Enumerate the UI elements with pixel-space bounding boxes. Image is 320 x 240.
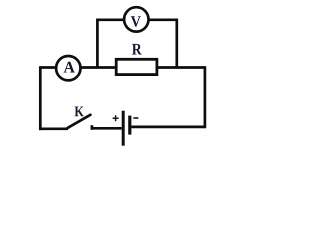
label K [75, 106, 84, 116]
wire: main middle horizontal [40, 66, 205, 69]
label V [131, 16, 141, 26]
battery plus sign [113, 115, 119, 121]
label A [64, 62, 75, 73]
battery minus sign [133, 117, 138, 119]
voltmeter V circle [124, 7, 148, 31]
resistor R body [116, 59, 157, 74]
battery negative plate (short) [128, 116, 131, 135]
wire: top voltmeter branch [97, 20, 176, 68]
switch K blade [68, 115, 91, 128]
wire: switch to battery [92, 127, 122, 130]
wire: right vertical [204, 66, 207, 128]
ammeter A circle [56, 56, 80, 80]
switch K right post [91, 125, 94, 130]
label R [132, 44, 142, 55]
wire: left vertical [39, 66, 42, 130]
wire: bottom left segment [39, 127, 68, 130]
battery positive plate (long) [122, 111, 125, 146]
wire: battery to right corner [131, 126, 205, 129]
